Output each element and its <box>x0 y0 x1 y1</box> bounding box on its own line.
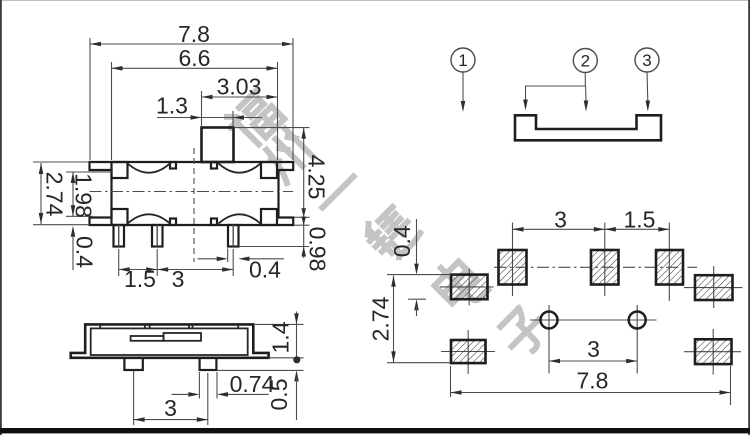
dim 3.03 <box>201 91 203 126</box>
watermark char zi <box>496 304 551 359</box>
dim 2.74 left <box>33 161 90 163</box>
dim 7.8 pcb <box>450 366 452 397</box>
notch bottom b <box>211 219 217 226</box>
pad T3 <box>656 250 683 285</box>
leader 3 <box>646 72 649 101</box>
svg-text:2.74: 2.74 <box>368 296 394 341</box>
cover tick 3b <box>192 324 194 328</box>
svg-text:3: 3 <box>164 395 177 421</box>
side pin 2 <box>200 358 217 370</box>
contact arc top-left <box>128 163 171 172</box>
top view body outline <box>90 162 294 225</box>
dim 3 pcb holes <box>549 360 637 362</box>
hole 1 <box>541 312 558 329</box>
notch top b <box>211 162 217 169</box>
pad R-top centerlines <box>684 287 743 289</box>
corner post top-left <box>112 162 128 178</box>
corner post bottom-left <box>112 209 128 225</box>
dim 0.5 <box>216 369 303 371</box>
svg-text:6.6: 6.6 <box>179 45 211 71</box>
notch top a <box>170 162 176 169</box>
svg-text:0.74: 0.74 <box>230 371 275 397</box>
watermark char dian <box>429 255 488 314</box>
dim 0.4 pcb <box>416 219 418 264</box>
cover tick 4 <box>237 324 239 328</box>
pad T1 centerline <box>512 223 514 297</box>
pad L-bot centerlines <box>441 351 495 353</box>
svg-text:4.25: 4.25 <box>304 155 330 200</box>
dim 1.4 <box>255 323 304 325</box>
dim 1.98 left <box>66 171 112 173</box>
watermark char fu <box>223 89 284 150</box>
svg-text:2.74: 2.74 <box>42 172 68 217</box>
svg-text:2: 2 <box>581 52 590 71</box>
pin 1 <box>114 225 125 247</box>
pad L-top <box>451 275 488 300</box>
cover tick 2b <box>149 324 151 328</box>
callout circle 2 <box>573 49 597 73</box>
dim 0.4 right of pin3 <box>198 258 218 260</box>
actuator knob <box>202 128 234 163</box>
dim 0.4 left <box>71 226 76 237</box>
watermark <box>223 89 551 359</box>
dim 2.74 pcb <box>387 274 404 276</box>
contact arc top-right <box>219 163 261 172</box>
dim 1.5 pcb top <box>605 228 670 230</box>
notch bottom a <box>170 219 176 226</box>
svg-text:1.4: 1.4 <box>268 321 294 353</box>
svg-text:0.4: 0.4 <box>249 257 281 283</box>
svg-text:0.4: 0.4 <box>389 225 415 257</box>
cover tick 2a <box>144 324 146 328</box>
pad T1 <box>499 250 527 285</box>
dim lines right column 4.25 and 0.98 <box>234 127 310 129</box>
pad L-bot <box>451 340 486 363</box>
side view inner cover <box>91 328 248 355</box>
side view outer outline <box>71 324 269 357</box>
svg-text:7.8: 7.8 <box>178 21 210 47</box>
horizontal centerline <box>90 191 294 193</box>
side pin 1 <box>124 358 142 370</box>
watermark char yi <box>322 176 353 207</box>
vertical centerline <box>193 148 195 262</box>
pad T2 centerline <box>604 223 606 297</box>
svg-text:1: 1 <box>458 51 467 70</box>
callout circle 3 <box>635 48 659 72</box>
dim 6.6 <box>111 62 113 160</box>
leader 1 <box>462 72 464 102</box>
pad R-top <box>695 275 733 300</box>
callout circle 1 <box>451 48 475 72</box>
dim 7.8 top <box>89 38 91 160</box>
svg-text:3: 3 <box>554 207 567 233</box>
pad R-bot centerlines <box>684 351 741 353</box>
cover tick 3a <box>188 324 190 328</box>
dim 0.74 <box>198 372 200 399</box>
pad T2 <box>591 250 619 285</box>
svg-text:3: 3 <box>172 266 185 292</box>
svg-text:3.03: 3.03 <box>217 74 262 100</box>
pad row centerline dash-dot <box>494 266 697 268</box>
pad T3 centerline <box>668 223 670 302</box>
svg-text:7.8: 7.8 <box>577 368 609 394</box>
svg-text:3: 3 <box>642 51 651 70</box>
svg-text:1.5: 1.5 <box>624 207 656 233</box>
svg-text:0.4: 0.4 <box>72 236 98 268</box>
metal frame channel cross-section <box>515 115 661 140</box>
slider base left <box>131 336 164 341</box>
hole 2 <box>629 312 646 329</box>
pad L-top centerlines <box>440 286 494 288</box>
svg-text:1.3: 1.3 <box>156 93 188 119</box>
cover tick 1 <box>99 324 101 328</box>
leader 2 <box>526 73 586 101</box>
watermark char zhou <box>259 128 314 183</box>
svg-text:1.98: 1.98 <box>71 173 97 218</box>
dim 1.5 and 3 bottom <box>118 249 120 276</box>
dim 1.3 <box>157 117 262 119</box>
pin 2 <box>152 225 163 247</box>
svg-text:0.98: 0.98 <box>305 227 331 272</box>
contact arc bottom-right <box>219 214 261 223</box>
watermark char jian <box>361 203 422 264</box>
svg-text:3: 3 <box>587 336 600 362</box>
corner post bottom-right <box>261 209 277 225</box>
pad R-bot <box>695 339 732 364</box>
pin 3 <box>228 225 239 247</box>
svg-text:1.5: 1.5 <box>124 266 156 292</box>
holes centerline <box>530 319 657 321</box>
dim 3 side view <box>133 371 135 425</box>
corner post top-right <box>261 162 277 178</box>
contact arc bottom-left <box>128 214 171 223</box>
slider base right <box>164 333 202 341</box>
dim 3 pcb top <box>513 228 605 230</box>
